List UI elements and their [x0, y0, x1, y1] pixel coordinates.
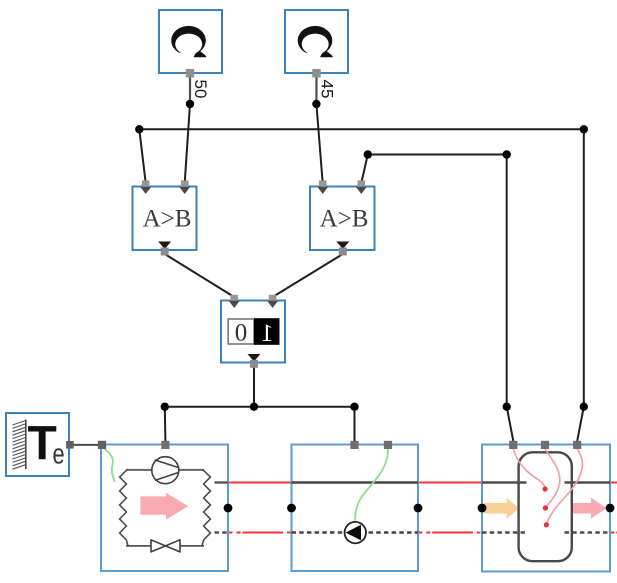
hydraulic red line flow solid segments	[229, 482, 617, 484]
wire H3 to pump control input	[354, 407, 356, 441]
junction J1	[186, 100, 194, 108]
tank sensor connector 1	[509, 441, 517, 449]
comparator 1 input A connector	[140, 180, 151, 194]
junction H2 right	[503, 150, 511, 158]
OR block input 2 connector	[267, 295, 278, 308]
constant 45 icon	[298, 26, 333, 57]
svg-text:A>B: A>B	[143, 206, 192, 233]
constant block 50 output connector	[186, 69, 194, 77]
pump block flow line solid	[292, 481, 419, 483]
junction H3 left	[161, 403, 169, 411]
heat pump return port stub dashed	[215, 531, 229, 533]
tank sensor curve 1	[513, 449, 545, 490]
comparator block 2 A>B	[310, 187, 375, 251]
wire Te sensor to heat pump	[71, 444, 103, 446]
tank vessel	[519, 452, 572, 561]
tank sensor dot 3	[544, 522, 549, 527]
heat pump compressor	[152, 457, 179, 484]
junction H1 right	[580, 125, 588, 133]
junction H1 left	[135, 125, 143, 133]
svg-text:45: 45	[318, 80, 337, 99]
pump circulator icon	[345, 522, 366, 543]
pump block return line dashed	[292, 531, 419, 533]
wire H3 distribution bus y=406.7	[165, 406, 355, 408]
tank flow port stub right	[565, 481, 611, 484]
heat pump green control wire	[103, 448, 115, 482]
Te output connector	[66, 441, 74, 449]
heat pump expansion valve	[151, 540, 180, 552]
junction H1 drop bottom	[580, 403, 588, 411]
tank sensor dot 1	[543, 486, 548, 491]
tank inflow arrow orange	[484, 498, 519, 519]
pump control connector 2	[384, 441, 392, 449]
wire H1 right vertical drop x=583.8	[583, 129, 585, 406]
wire H2 right vertical drop x=506.7	[506, 155, 508, 407]
tank sensor connector 2	[541, 441, 549, 449]
wire OR block output down	[253, 366, 255, 407]
wire H2 horizontal bus y=154.5	[368, 154, 507, 156]
svg-text:A>B: A>B	[320, 206, 369, 233]
wire comparator2 output to OR block input 2	[273, 254, 343, 297]
outside temperature sensor block Te	[6, 413, 69, 476]
pump green control wire	[355, 449, 388, 522]
tank block	[482, 445, 610, 572]
tank sensor curve 3	[546, 449, 582, 525]
tank sensor connector 3	[573, 441, 581, 449]
wire H1 horizontal bus y=129	[139, 128, 584, 130]
constant 50 icon	[171, 26, 206, 57]
svg-text:1: 1	[261, 320, 274, 347]
OR switch block	[221, 301, 285, 363]
junction J2	[312, 100, 320, 108]
tank right port dot	[606, 504, 615, 513]
wire J1 to comparator1 input B	[185, 104, 190, 183]
wire H1 left end to comparator1 input A	[139, 129, 145, 183]
constant block 45	[285, 10, 348, 73]
wire H1 drop to tank sensor connector 3	[577, 407, 584, 441]
junction H2 left	[364, 150, 372, 158]
wire const50 to junction J1	[189, 73, 191, 104]
tank sensor dot 2	[543, 505, 548, 510]
OR switch icon	[228, 318, 279, 347]
heat pump control connector	[161, 441, 169, 449]
constant block 45 output connector	[312, 69, 320, 77]
heat pump flow arrow	[140, 493, 188, 520]
heat pump block	[101, 445, 228, 572]
tank flow port stub left	[482, 481, 527, 484]
svg-text:50: 50	[191, 80, 210, 99]
comparator 2 input A connector	[317, 180, 328, 194]
hydraulic red line return dashed segments	[229, 532, 617, 534]
OR block output connector	[248, 354, 261, 368]
comparator 1 output connector	[158, 242, 171, 256]
heat pump flow port stub solid	[215, 481, 229, 483]
heat pump right port dot	[224, 504, 233, 513]
wire H2 left end to comparator2 input B	[361, 155, 368, 184]
tank left port dot	[478, 504, 487, 513]
wire H3 to heat pump control input	[164, 407, 167, 441]
comparator block 1 A>B	[133, 187, 197, 251]
tank outflow arrow pink	[572, 498, 607, 519]
heat pump condenser zigzag right	[202, 469, 210, 546]
junction H3 right	[350, 403, 358, 411]
junction H2 drop bottom	[503, 403, 511, 411]
Te wall hatch icon	[13, 420, 26, 470]
OR block input 1 connector	[229, 295, 240, 308]
Te text	[28, 418, 65, 471]
svg-text:0: 0	[235, 320, 248, 347]
heat pump evaporator zigzag left	[120, 469, 128, 546]
pump control connector 1	[350, 441, 358, 449]
tank sensor curve 2	[545, 449, 560, 508]
comparator 1 input B connector	[179, 180, 190, 194]
pump right port dot	[414, 504, 423, 513]
svg-text:e: e	[53, 439, 65, 471]
heat pump refrigerant loop bottom line	[126, 545, 204, 547]
constant block 50	[159, 10, 222, 73]
tank return port stub left dashed	[482, 531, 527, 534]
wire comparator1 output to OR block input 1	[165, 254, 235, 297]
comparator 2 input B connector	[356, 180, 367, 194]
pump block	[292, 445, 419, 572]
heat pump connector corner	[98, 441, 106, 449]
wire H2 drop to tank sensor connector 1	[507, 407, 514, 441]
heat pump refrigerant loop top line	[126, 469, 204, 471]
junction H3 center	[250, 403, 258, 411]
comparator 2 output connector	[336, 242, 349, 256]
tank return port stub right dashed	[565, 531, 611, 534]
pump left port dot	[287, 504, 296, 513]
wire J2 to comparator2 input A	[316, 104, 322, 183]
wire const45 to junction J2	[315, 73, 317, 104]
